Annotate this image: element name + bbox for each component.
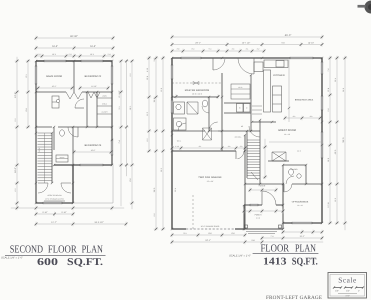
svg-text:TWO CAR GARAGE: TWO CAR GARAGE [198,176,222,179]
svg-text:SCALE 1/4" = 1'-0": SCALE 1/4" = 1'-0" [1,256,23,259]
svg-text:9'-2: 9'-2 [129,74,132,77]
svg-text:SQ.FT.: SQ.FT. [292,257,318,268]
svg-text:15'-0: 15'-0 [327,158,330,162]
svg-text:16'-0": 16'-0" [91,149,96,152]
svg-text:1413: 1413 [263,257,287,268]
svg-text:PORCH: PORCH [255,214,262,217]
svg-text:10'-7 1/2": 10'-7 1/2" [242,41,251,44]
svg-text:VANITY: VANITY [60,157,65,159]
svg-text:21' x 24': 21' x 24' [207,180,214,183]
svg-text:SECOND: SECOND [10,243,44,255]
svg-text:11'-2: 11'-2 [146,112,149,116]
svg-text:13'-6 x 14'-0: 13'-6 x 14'-0 [192,93,202,96]
svg-text:20'-4: 20'-4 [334,78,337,82]
svg-text:FRONT-LEFT GARAGE: FRONT-LEFT GARAGE [266,295,322,300]
svg-text:1/4": 1/4" [335,290,339,293]
svg-text:3'-1: 3'-1 [118,107,121,110]
svg-text:KITCHEN: KITCHEN [273,74,284,77]
svg-text:24'-1": 24'-1" [195,41,201,44]
svg-text:OFFICE/BONUS: OFFICE/BONUS [292,201,309,204]
svg-text:SQ.FT.: SQ.FT. [67,257,103,268]
svg-text:24'-1": 24'-1" [205,239,211,242]
svg-text:BREAKFAST AREA: BREAKFAST AREA [295,99,314,102]
svg-text:14' x 16': 14' x 16' [284,133,291,136]
svg-text:600: 600 [37,257,58,268]
svg-text:13'-2": 13'-2" [299,235,304,238]
svg-text:16'-2": 16'-2" [52,85,57,88]
svg-text:BEDROOM #2: BEDROOM #2 [85,75,102,78]
svg-text:FOYER: FOYER [259,185,266,188]
svg-text:FLOOR: FLOOR [260,243,289,255]
svg-text:MASTER BEDROOM: MASTER BEDROOM [185,89,209,92]
svg-text:5'-8: 5'-8 [251,239,254,242]
svg-text:16'-5": 16'-5" [90,45,96,48]
svg-text:4'-2: 4'-2 [257,48,260,51]
svg-text:7'-4: 7'-4 [118,140,121,143]
svg-text:16'-0" GARAGE DOOR: 16'-0" GARAGE DOOR [201,225,220,228]
svg-text:3'-0: 3'-0 [153,59,156,62]
svg-text:1": 1" [358,290,360,293]
svg-text:8'-1 1/2": 8'-1 1/2" [118,90,121,97]
svg-text:5'-2: 5'-2 [14,119,17,122]
svg-text:5'-10": 5'-10" [61,211,66,214]
svg-text:26'-8: 26'-8 [342,88,345,92]
svg-text:GREAT ROOM: GREAT ROOM [278,129,296,132]
svg-text:8'-9: 8'-9 [25,108,28,111]
svg-text:4'-1: 4'-1 [246,48,249,51]
svg-text:6'-2: 6'-2 [14,189,17,192]
svg-text:1'-8: 1'-8 [108,53,111,56]
svg-text:PLAN: PLAN [82,243,104,255]
svg-text:11'-7": 11'-7" [51,221,57,224]
svg-text:9'-1: 9'-1 [183,232,186,235]
svg-text:12'-10: 12'-10 [327,202,330,207]
svg-text:5'-4: 5'-4 [209,48,212,51]
svg-text:1'-0: 1'-0 [38,53,41,56]
svg-text:13'-0: 13'-0 [334,198,337,202]
svg-text:23'-4: 23'-4 [174,188,177,192]
svg-text:BEDROOM #3: BEDROOM #3 [85,144,102,147]
svg-text:13'-2": 13'-2" [14,92,17,98]
svg-text:2'-0: 2'-0 [69,53,72,56]
svg-text:18'-3 1/2": 18'-3 1/2" [94,221,103,224]
svg-text:12'-10": 12'-10" [91,85,97,88]
svg-text:13'-6: 13'-6 [146,76,149,80]
svg-text:12'-0: 12'-0 [38,148,41,152]
svg-text:12'-8: 12'-8 [160,88,163,92]
svg-text:FLOOR: FLOOR [48,243,78,255]
svg-text:4'-6: 4'-6 [232,48,235,51]
svg-text:2'-8: 2'-8 [177,48,180,51]
svg-text:5'-0: 5'-0 [281,41,284,44]
svg-text:5'-8: 5'-8 [327,109,330,112]
svg-text:10'-2: 10'-2 [52,53,56,56]
svg-text:55'-0: 55'-0 [342,137,345,143]
svg-text:8'-0: 8'-0 [192,48,195,51]
svg-text:20'-2: 20'-2 [160,168,163,172]
svg-text:6'-0: 6'-0 [231,232,234,235]
svg-text:1/2": 1/2" [346,290,350,293]
svg-text:PLAN: PLAN [295,243,316,255]
svg-text:14'-10": 14'-10" [308,41,314,44]
svg-text:32'-10": 32'-10" [70,35,78,38]
svg-text:10'-2: 10'-2 [90,53,94,56]
svg-text:19'-0": 19'-0" [14,167,17,173]
svg-text:1'-0": 1'-0" [345,295,350,298]
svg-text:9'-0: 9'-0 [153,214,156,217]
svg-text:6'-10: 6'-10 [146,68,149,72]
svg-text:46'-0": 46'-0" [285,34,292,37]
svg-text:7'-0: 7'-0 [271,235,274,238]
svg-text:8'-2: 8'-2 [146,139,149,142]
svg-text:OPEN TO BELOW: OPEN TO BELOW [47,194,62,197]
svg-text:5'-10": 5'-10" [42,211,47,214]
svg-text:8'-0: 8'-0 [208,232,211,235]
svg-text:7'-6: 7'-6 [327,69,330,72]
svg-text:GAME ROOM: GAME ROOM [46,75,62,78]
svg-text:Scale: Scale [338,276,357,285]
svg-text:SCALE 1/4" = 1'-0": SCALE 1/4" = 1'-0" [229,255,251,258]
svg-text:16'-5": 16'-5" [52,45,58,48]
svg-text:12'-4: 12'-4 [327,88,330,92]
svg-text:8'-1: 8'-1 [25,74,28,77]
